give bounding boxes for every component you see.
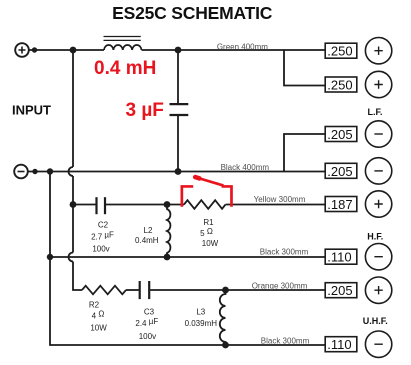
svg-text:ES25C SCHEMATIC: ES25C SCHEMATIC xyxy=(112,3,273,23)
svg-text:C3: C3 xyxy=(144,308,155,317)
svg-text:.250: .250 xyxy=(327,77,352,92)
svg-text:Orange 300mm: Orange 300mm xyxy=(252,282,308,291)
svg-text:C2: C2 xyxy=(98,221,109,230)
svg-text:0.4mH: 0.4mH xyxy=(135,236,159,245)
svg-text:.205: .205 xyxy=(327,127,352,142)
svg-text:.205: .205 xyxy=(327,164,352,179)
svg-text:L.F.: L.F. xyxy=(368,107,383,117)
svg-text:.250: .250 xyxy=(327,44,352,59)
svg-text:R2: R2 xyxy=(89,301,100,310)
svg-text:.110: .110 xyxy=(327,250,351,265)
svg-text:.110: .110 xyxy=(327,337,351,352)
svg-text:R1: R1 xyxy=(203,218,214,227)
svg-text:Black 300mm: Black 300mm xyxy=(260,248,309,257)
svg-text:3 µF: 3 µF xyxy=(126,100,164,121)
svg-text:Black 300mm: Black 300mm xyxy=(261,337,310,346)
svg-text:U.H.F.: U.H.F. xyxy=(363,316,388,326)
svg-text:10W: 10W xyxy=(202,239,219,248)
svg-text:L3: L3 xyxy=(196,308,205,317)
svg-text:INPUT: INPUT xyxy=(12,103,51,118)
svg-text:100v: 100v xyxy=(92,245,109,254)
svg-text:L2: L2 xyxy=(144,226,153,235)
svg-text:0.039mH: 0.039mH xyxy=(185,319,218,328)
svg-text:.205: .205 xyxy=(327,283,352,298)
svg-text:Green 400mm: Green 400mm xyxy=(217,43,268,52)
svg-text:Black 400mm: Black 400mm xyxy=(221,163,270,172)
svg-text:0.4 mH: 0.4 mH xyxy=(94,58,156,79)
svg-text:10W: 10W xyxy=(90,323,107,332)
svg-text:H.F.: H.F. xyxy=(367,232,383,242)
svg-text:.187: .187 xyxy=(327,197,352,212)
svg-text:100v: 100v xyxy=(139,332,156,341)
svg-text:Yellow 300mm: Yellow 300mm xyxy=(254,195,306,204)
